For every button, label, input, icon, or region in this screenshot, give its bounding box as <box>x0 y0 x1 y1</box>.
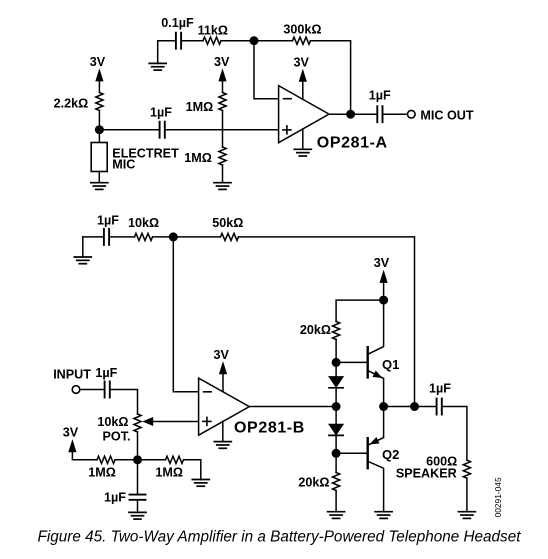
ground (Q2 collector) <box>375 512 392 519</box>
wire <box>111 390 138 415</box>
svg-text:1µF: 1µF <box>429 382 451 396</box>
wire (op-amp A output) <box>329 113 376 115</box>
supply 3V (1M divider) <box>214 55 230 93</box>
terminal MIC OUT <box>408 108 474 122</box>
svg-text:10kΩ: 10kΩ <box>97 415 128 429</box>
wire <box>335 340 337 363</box>
supply 3V (2.2k) <box>90 55 106 93</box>
wire <box>443 407 467 461</box>
node I (emitter junction) <box>379 402 388 411</box>
capacitor 1uF (bias bypass) <box>104 491 145 505</box>
wire <box>98 111 100 130</box>
wire (feedback top rail) <box>239 237 415 407</box>
node K (Q2 base) <box>332 449 341 458</box>
svg-text:OP281-B: OP281-B <box>234 420 305 437</box>
resistor 50k <box>212 216 243 241</box>
capacitor 1uF (mic coupling) <box>150 106 172 138</box>
svg-text:3V: 3V <box>63 425 79 439</box>
capacitor 1uF (mic out) <box>369 89 391 123</box>
svg-text:Figure 45. Two-Way Amplifier i: Figure 45. Two-Way Amplifier in a Batter… <box>38 528 522 545</box>
supply 3V (bias) <box>63 425 97 459</box>
svg-text:3V: 3V <box>90 55 106 69</box>
svg-text:3V: 3V <box>214 55 230 69</box>
resistor 300k <box>283 23 321 45</box>
svg-text:1µF: 1µF <box>97 214 119 228</box>
ground (20k lower) <box>328 512 345 519</box>
ground (speaker) <box>458 512 475 519</box>
svg-text:1MΩ: 1MΩ <box>184 151 212 165</box>
terminal INPUT <box>53 368 91 394</box>
svg-text:1MΩ: 1MΩ <box>155 466 183 480</box>
svg-text:20kΩ: 20kΩ <box>298 476 329 490</box>
svg-text:1MΩ: 1MΩ <box>88 466 116 480</box>
wire <box>80 389 104 391</box>
wire <box>166 129 279 131</box>
node B (mic node) <box>95 125 104 134</box>
resistor 1M (bias right) <box>155 456 183 479</box>
wire <box>383 113 407 115</box>
svg-text:50kΩ: 50kΩ <box>212 216 243 230</box>
ground (1uF row D) <box>74 237 91 264</box>
transistor Q1 <box>368 300 400 406</box>
ground (op-amp B) <box>214 421 231 448</box>
node H (output node left) <box>332 402 341 411</box>
wire (node E down) <box>137 460 139 494</box>
wire <box>115 459 166 461</box>
svg-text:MIC OUT: MIC OUT <box>420 108 473 122</box>
supply 3V (op-amp B) <box>213 348 229 392</box>
svg-text:MIC: MIC <box>112 158 135 172</box>
ground (bias right) <box>192 480 209 487</box>
diode D2 <box>329 407 343 454</box>
wire (feedback to inverting input) <box>254 41 279 99</box>
svg-text:10kΩ: 10kΩ <box>128 216 159 230</box>
wire <box>221 40 254 42</box>
svg-text:POT.: POT. <box>103 429 131 443</box>
resistor 2.2k <box>54 93 103 111</box>
node F (3V rail junction) <box>379 296 388 305</box>
capacitor 0.1uF <box>161 16 194 49</box>
wire (emitter junction to speaker coupling) <box>384 406 436 408</box>
wire <box>184 460 201 480</box>
ground (bias bypass) <box>129 501 146 519</box>
node C (output/feedback) <box>346 110 355 119</box>
node J (feedback junction) <box>410 402 419 411</box>
potentiometer 10k POT <box>97 414 198 443</box>
ground (0.1uF input) <box>149 41 166 70</box>
transistor Q2 <box>368 407 400 512</box>
resistor 1M (upper) <box>186 93 226 115</box>
ground (op-amp A) <box>294 129 311 156</box>
svg-text:00291-045: 00291-045 <box>493 477 503 517</box>
wire (pot bottom to node) <box>137 432 139 460</box>
resistor 20k (lower) <box>298 453 339 511</box>
resistor 1M (lower) <box>184 147 226 165</box>
diode D1 <box>329 362 343 406</box>
ground (mic) <box>91 172 108 190</box>
svg-text:INPUT: INPUT <box>53 368 91 382</box>
op-amp U2 OP281-B <box>199 378 305 437</box>
resistor 600 speaker <box>396 455 471 512</box>
resistor 20k (upper) <box>300 322 340 340</box>
wire (rail to 20k) <box>336 300 384 321</box>
electret mic element <box>91 130 179 172</box>
supply 3V (output stage) <box>374 256 390 300</box>
wire <box>110 236 135 238</box>
capacitor 1uF (speaker coupling) <box>429 382 451 415</box>
svg-text:3V: 3V <box>374 256 390 270</box>
wire <box>182 40 203 42</box>
op-amp U1 OP281-A <box>279 86 388 152</box>
svg-text:1µF: 1µF <box>150 106 172 120</box>
svg-text:300kΩ: 300kΩ <box>283 23 321 37</box>
node D (inverting input junction) <box>169 232 178 241</box>
svg-text:2.2kΩ: 2.2kΩ <box>54 97 89 111</box>
wire (down to inverting input) <box>173 237 198 392</box>
wire <box>83 236 103 238</box>
svg-text:3V: 3V <box>293 56 309 70</box>
resistor 11k <box>198 24 228 45</box>
svg-text:20kΩ: 20kΩ <box>300 323 331 337</box>
svg-text:Q2: Q2 <box>382 447 399 462</box>
svg-text:1MΩ: 1MΩ <box>186 100 214 114</box>
node E (bias node) <box>133 455 142 464</box>
capacitor 1uF (feedback) <box>97 214 119 245</box>
node G (Q1 base) <box>332 358 341 367</box>
svg-text:1µF: 1µF <box>369 89 391 103</box>
wire <box>311 41 351 115</box>
wire (signal row) <box>99 129 158 131</box>
node A (feedback junction) <box>250 36 259 45</box>
wire <box>254 40 293 42</box>
svg-text:11kΩ: 11kΩ <box>198 24 228 38</box>
svg-text:3V: 3V <box>213 348 229 362</box>
svg-text:1µF: 1µF <box>95 366 117 380</box>
ground (1M divider) <box>214 165 231 189</box>
wire (op-amp B output row) <box>249 406 336 408</box>
wire <box>153 236 221 238</box>
svg-text:OP281-A: OP281-A <box>317 135 388 152</box>
svg-text:SPEAKER: SPEAKER <box>396 466 457 480</box>
svg-text:0.1µF: 0.1µF <box>161 16 194 30</box>
wire <box>158 40 175 42</box>
wire (Q2 base) <box>336 452 367 454</box>
resistor 10k <box>128 216 159 241</box>
resistor 1M (bias left) <box>88 456 116 479</box>
wire <box>222 111 224 148</box>
capacitor 1uF (input) <box>95 366 117 398</box>
supply 3V (op-amp A) <box>293 56 309 100</box>
svg-text:1µF: 1µF <box>104 491 126 505</box>
wire (Q1 base) <box>336 361 367 363</box>
svg-text:Q1: Q1 <box>382 357 399 372</box>
